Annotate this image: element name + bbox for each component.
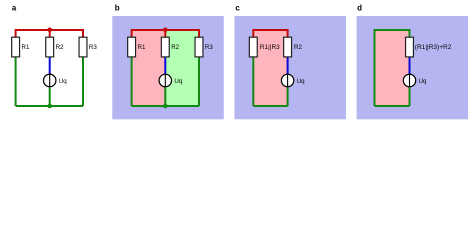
resistor R1||R3 c: [249, 37, 257, 57]
wire: red stub R2 b: [164, 29, 166, 38]
wire: top red bus a: [16, 29, 83, 31]
region: mesh 1 pink b: [132, 30, 166, 106]
wire: red stub right c: [287, 29, 289, 38]
wire: red stub R3 a: [82, 29, 84, 38]
wire: red stub R2 a: [49, 29, 51, 38]
wire: green source to bus c: [287, 87, 289, 106]
svg-text:R1||R3: R1||R3: [260, 44, 280, 51]
panel c background: [234, 16, 346, 119]
node: bottom junction dot a: [47, 104, 52, 109]
resistor R3: [79, 37, 87, 57]
source Uq circle a: [44, 74, 56, 86]
wire: top red bus b: [132, 29, 199, 31]
wire: bottom green bus b: [132, 105, 199, 107]
wire: red stub R3 b: [198, 29, 200, 38]
wire: green below R1 a: [15, 57, 17, 106]
svg-text:R3: R3: [205, 44, 213, 51]
panel d background: [357, 16, 469, 119]
svg-text:d: d: [357, 3, 362, 12]
node: top junction dot b: [163, 28, 168, 33]
wire: red stub left c: [252, 29, 254, 38]
svg-text:R2: R2: [171, 44, 179, 51]
resistor R3 b: [195, 37, 203, 57]
region: mesh pink d: [375, 30, 410, 106]
svg-text:Uq: Uq: [297, 78, 305, 85]
svg-text:Uq: Uq: [59, 78, 67, 85]
wire: blue resistor to source d: [409, 57, 411, 74]
wire: green source to bus a: [49, 87, 51, 106]
source Uq circle c: [281, 74, 293, 86]
region: mesh pink c: [253, 30, 287, 106]
wire: blue R2 to source c: [287, 57, 289, 74]
wire: green below R3 a: [82, 57, 84, 106]
wire: green stub right d: [409, 29, 411, 38]
svg-text:b: b: [115, 3, 120, 12]
panel b background: [112, 16, 224, 119]
wire: green source to bus d: [409, 87, 411, 106]
wire: green source to bus b: [164, 87, 166, 106]
wire: blue R2 to source a: [49, 57, 51, 74]
svg-text:Uq: Uq: [419, 78, 427, 85]
svg-text:c: c: [235, 3, 240, 12]
wire: green below R1 b: [131, 57, 133, 106]
svg-text:Uq: Uq: [174, 78, 182, 85]
resistor R1: [12, 37, 20, 57]
resistor R2 c: [284, 37, 292, 57]
node: bottom junction dot b: [163, 104, 168, 109]
svg-text:R2: R2: [56, 44, 64, 51]
wire: top red bus c: [253, 29, 287, 31]
svg-text:R1: R1: [138, 44, 146, 51]
region: mesh 2 green b: [165, 30, 199, 106]
resistor R2: [46, 37, 54, 57]
svg-text:R3: R3: [89, 44, 97, 51]
wire: green left branch d: [374, 29, 376, 106]
source Uq arrow line d: [409, 74, 411, 87]
svg-text:R1: R1: [22, 44, 30, 51]
resistor R1 b: [128, 37, 136, 57]
wire: bottom green bus d: [375, 105, 410, 107]
svg-text:R2: R2: [294, 44, 302, 51]
source Uq arrow line a: [49, 74, 51, 87]
source Uq circle d: [403, 74, 415, 86]
source Uq arrow line c: [287, 74, 289, 87]
svg-text:(R1||R3)+R2: (R1||R3)+R2: [415, 44, 452, 51]
node: top junction dot a: [47, 28, 52, 33]
source Uq circle b: [159, 74, 171, 86]
svg-text:a: a: [12, 3, 17, 12]
wire: bottom green bus c: [253, 105, 287, 107]
source Uq arrow line b: [164, 74, 166, 87]
wire: blue R2 to source b: [164, 57, 166, 74]
resistor R2 b: [161, 37, 169, 57]
wire: green below R1||R3 c: [252, 57, 254, 106]
wire: green below R3 b: [198, 57, 200, 106]
wire: red stub R1 b: [131, 29, 133, 38]
wire: red stub R1 a: [15, 29, 17, 38]
wire: top green bus d: [375, 29, 410, 31]
resistor (R1||R3)+R2 d: [406, 37, 414, 57]
wire: bottom green bus a: [16, 105, 83, 107]
